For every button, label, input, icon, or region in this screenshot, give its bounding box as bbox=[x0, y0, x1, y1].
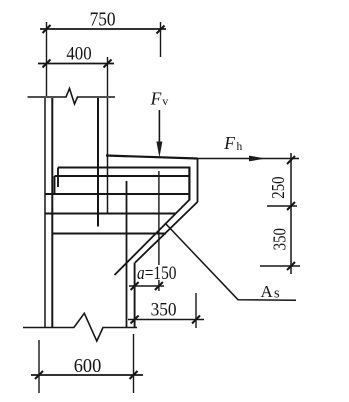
load extension line under Fv lower bbox=[158, 280, 160, 291]
dim 600 right tick bbox=[130, 371, 138, 379]
svg-text:F: F bbox=[223, 133, 235, 153]
lower column right edge bbox=[134, 263, 136, 328]
rebar bend vertical bbox=[188, 167, 190, 201]
svg-text:400: 400 bbox=[66, 45, 91, 65]
dim 400 right extension line bbox=[107, 57, 109, 96]
svg-text:A: A bbox=[261, 282, 274, 301]
right dim middle tick bbox=[287, 202, 295, 210]
force Fv arrowhead bbox=[156, 142, 162, 158]
dim 350 bottom right extension bbox=[195, 293, 197, 328]
rebar As bar1 left hook bbox=[57, 168, 59, 188]
dim 750 right tick bbox=[157, 26, 165, 34]
svg-text:s: s bbox=[274, 286, 280, 302]
dim 600 left extension bbox=[38, 340, 40, 393]
dim 400 left tick bbox=[43, 60, 51, 68]
dim 600 line bbox=[31, 374, 143, 376]
dim 750 left tick bbox=[43, 25, 51, 33]
dim 750 line bbox=[40, 28, 166, 30]
top break line bbox=[28, 89, 116, 105]
svg-text:h: h bbox=[237, 141, 243, 153]
stirrup bar5 bbox=[52, 233, 166, 235]
corbel top edge bbox=[106, 156, 198, 159]
column left edge bbox=[44, 98, 46, 328]
lower column right rebar bbox=[126, 181, 128, 328]
dim 600 right extension bbox=[133, 334, 135, 393]
dim 750 left extension line bbox=[46, 22, 48, 96]
svg-text:750: 750 bbox=[90, 10, 116, 31]
svg-text:250: 250 bbox=[268, 176, 288, 198]
right dim vertical line bbox=[290, 153, 292, 274]
dim 350 bottom right tick bbox=[192, 316, 200, 324]
right dim bottom tick bbox=[287, 262, 295, 270]
dim 750 right extension line bbox=[160, 22, 162, 57]
force Fv arrow shaft bbox=[158, 110, 160, 145]
stirrup bar3 bbox=[45, 193, 189, 195]
rebar As bar2 left hook bbox=[54, 176, 56, 194]
column right rebar bbox=[97, 98, 99, 227]
right dim bottom stub bbox=[260, 265, 300, 267]
dim 350 bottom left tick bbox=[131, 316, 139, 324]
dim 400 line bbox=[38, 63, 114, 65]
svg-text:350: 350 bbox=[151, 300, 177, 321]
corbel sloped face bbox=[135, 202, 197, 263]
column left rebar bbox=[51, 98, 53, 328]
force Fh arrow line bbox=[198, 158, 300, 160]
bottom break line bbox=[23, 313, 137, 341]
dim 350 bottom line bbox=[128, 319, 204, 321]
svg-text:600: 600 bbox=[74, 355, 102, 377]
right dim top tick bbox=[287, 156, 295, 164]
rebar As bar2 horizontal bbox=[55, 175, 190, 177]
load extension line under Fv upper bbox=[158, 171, 160, 265]
leader line As bbox=[165, 223, 296, 300]
stirrup bar4 bbox=[45, 213, 176, 215]
column right edge upper bbox=[107, 98, 109, 214]
dim a=150 right tick bbox=[155, 282, 163, 290]
svg-text:v: v bbox=[162, 94, 168, 108]
corbel right edge bbox=[197, 159, 199, 202]
dim 600 left tick bbox=[35, 371, 43, 379]
svg-text:a=150: a=150 bbox=[137, 264, 177, 284]
right dim middle stub bbox=[267, 205, 297, 207]
dim 400 right tick bbox=[104, 60, 112, 68]
svg-text:F: F bbox=[150, 88, 162, 108]
rebar As bar1 horizontal bbox=[58, 167, 190, 169]
dim a=150 left tick bbox=[131, 282, 139, 290]
force Fh arrowhead bbox=[249, 156, 266, 162]
svg-text:350: 350 bbox=[269, 228, 289, 251]
rebar bend diagonal bbox=[115, 200, 190, 275]
dim a=150 line bbox=[129, 285, 164, 287]
